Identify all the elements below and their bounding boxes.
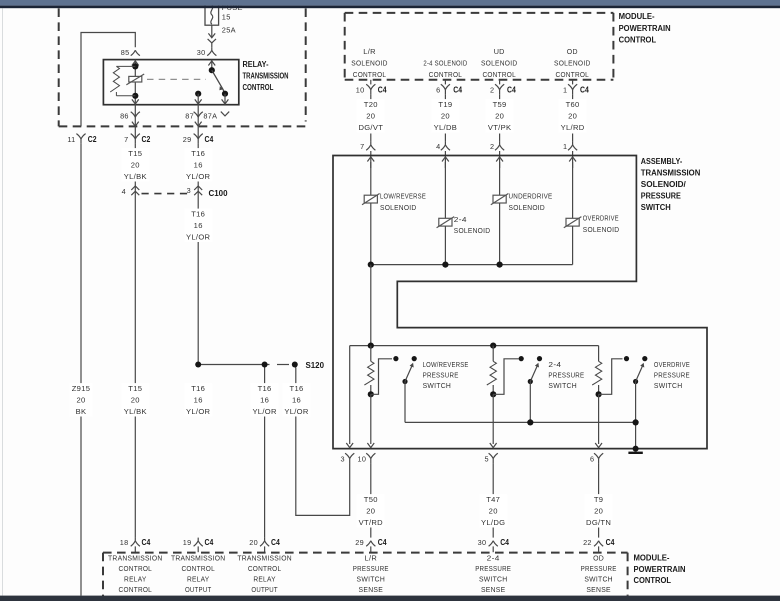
svg-text:CONTROL: CONTROL bbox=[119, 564, 153, 573]
svg-text:SWITCH: SWITCH bbox=[641, 202, 671, 212]
svg-text:20: 20 bbox=[131, 396, 140, 405]
svg-text:19: 19 bbox=[183, 538, 192, 547]
svg-text:Z915: Z915 bbox=[72, 384, 91, 393]
svg-text:6: 6 bbox=[590, 454, 594, 463]
svg-text:SOLENOID: SOLENOID bbox=[509, 203, 546, 212]
svg-text:T9: T9 bbox=[594, 495, 603, 504]
svg-text:20: 20 bbox=[366, 507, 375, 516]
svg-text:20: 20 bbox=[489, 507, 498, 516]
svg-text:PRESSURE: PRESSURE bbox=[654, 370, 690, 379]
svg-text:20: 20 bbox=[441, 112, 450, 121]
svg-text:30: 30 bbox=[197, 48, 206, 57]
svg-text:PRESSURE: PRESSURE bbox=[475, 564, 511, 573]
svg-text:YL/OR: YL/OR bbox=[252, 407, 277, 416]
svg-text:1: 1 bbox=[563, 86, 567, 95]
svg-text:TRANSMISSION: TRANSMISSION bbox=[171, 554, 226, 563]
svg-text:2-4: 2-4 bbox=[487, 554, 500, 563]
svg-text:YL/OR: YL/OR bbox=[186, 407, 211, 416]
svg-text:CONTROL: CONTROL bbox=[119, 585, 153, 594]
svg-text:3: 3 bbox=[187, 186, 191, 195]
svg-text:18: 18 bbox=[120, 538, 129, 547]
svg-text:CONTROL: CONTROL bbox=[556, 70, 590, 79]
svg-text:10: 10 bbox=[357, 454, 366, 463]
svg-text:SWITCH: SWITCH bbox=[423, 381, 452, 390]
svg-text:16: 16 bbox=[292, 396, 301, 405]
svg-text:5: 5 bbox=[485, 454, 489, 463]
svg-text:T15: T15 bbox=[128, 384, 142, 393]
svg-text:SENSE: SENSE bbox=[586, 585, 611, 594]
svg-text:16: 16 bbox=[194, 161, 203, 170]
svg-text:85: 85 bbox=[121, 48, 130, 57]
svg-text:LOW/REVERSE: LOW/REVERSE bbox=[423, 360, 469, 369]
svg-text:C4: C4 bbox=[205, 538, 214, 547]
svg-text:RELAY: RELAY bbox=[124, 575, 147, 584]
svg-text:7: 7 bbox=[124, 135, 128, 144]
svg-text:10: 10 bbox=[356, 86, 365, 95]
svg-text:S120: S120 bbox=[306, 361, 325, 370]
svg-text:L/R: L/R bbox=[363, 47, 376, 56]
svg-text:SWITCH: SWITCH bbox=[479, 575, 508, 584]
svg-text:25A: 25A bbox=[222, 26, 236, 35]
svg-text:RELAY: RELAY bbox=[187, 575, 210, 584]
svg-text:UD: UD bbox=[494, 47, 505, 56]
svg-text:2: 2 bbox=[490, 86, 494, 95]
svg-text:T15: T15 bbox=[128, 149, 142, 158]
svg-text:C100: C100 bbox=[209, 189, 229, 198]
svg-text:CONTROL: CONTROL bbox=[429, 70, 463, 79]
svg-text:2-4: 2-4 bbox=[454, 215, 467, 224]
svg-text:SENSE: SENSE bbox=[359, 585, 384, 594]
svg-text:C4: C4 bbox=[378, 86, 387, 95]
svg-text:TRANSMISSION: TRANSMISSION bbox=[641, 167, 701, 177]
svg-text:CONTROL: CONTROL bbox=[634, 575, 672, 585]
svg-text:RELAY: RELAY bbox=[253, 575, 276, 584]
svg-text:OD: OD bbox=[567, 47, 578, 56]
svg-text:T16: T16 bbox=[290, 384, 304, 393]
svg-text:SOLENOID: SOLENOID bbox=[380, 203, 417, 212]
svg-text:UNDERDRIVE: UNDERDRIVE bbox=[509, 191, 553, 200]
svg-text:11: 11 bbox=[67, 135, 75, 144]
svg-text:PRESSURE: PRESSURE bbox=[641, 190, 681, 200]
svg-text:PRESSURE: PRESSURE bbox=[548, 370, 584, 379]
svg-text:MODULE-: MODULE- bbox=[634, 553, 670, 563]
svg-text:SOLENOID: SOLENOID bbox=[351, 59, 388, 68]
svg-text:C4: C4 bbox=[378, 538, 387, 547]
svg-text:YL/BK: YL/BK bbox=[124, 407, 147, 416]
svg-text:C4: C4 bbox=[500, 538, 509, 547]
svg-text:C4: C4 bbox=[507, 86, 516, 95]
svg-text:PRESSURE: PRESSURE bbox=[353, 564, 389, 573]
svg-text:C4: C4 bbox=[580, 86, 589, 95]
svg-text:1: 1 bbox=[563, 142, 567, 151]
svg-text:OVERDRIVE: OVERDRIVE bbox=[654, 360, 690, 369]
svg-text:YL/OR: YL/OR bbox=[186, 233, 211, 242]
svg-text:SWITCH: SWITCH bbox=[654, 381, 683, 390]
svg-text:T16: T16 bbox=[191, 149, 205, 158]
svg-text:20: 20 bbox=[594, 507, 603, 516]
svg-text:VT/RD: VT/RD bbox=[359, 518, 383, 527]
svg-text:7: 7 bbox=[360, 142, 364, 151]
svg-text:16: 16 bbox=[260, 396, 269, 405]
svg-text:MODULE-: MODULE- bbox=[619, 11, 655, 21]
svg-text:T16: T16 bbox=[258, 384, 272, 393]
svg-text:29: 29 bbox=[183, 135, 192, 144]
svg-text:SOLENOID: SOLENOID bbox=[554, 59, 591, 68]
svg-text:SOLENOID: SOLENOID bbox=[583, 225, 620, 234]
svg-text:16: 16 bbox=[194, 396, 203, 405]
svg-text:T16: T16 bbox=[191, 210, 205, 219]
svg-text:86: 86 bbox=[120, 112, 129, 121]
svg-text:20: 20 bbox=[366, 112, 375, 121]
svg-text:DG/TN: DG/TN bbox=[586, 518, 611, 527]
svg-text:VT/PK: VT/PK bbox=[488, 123, 511, 132]
svg-text:TRANSMISSION: TRANSMISSION bbox=[237, 554, 292, 563]
svg-text:30: 30 bbox=[478, 538, 487, 547]
svg-text:C4: C4 bbox=[205, 135, 214, 144]
svg-text:20: 20 bbox=[131, 161, 140, 170]
svg-text:T47: T47 bbox=[486, 495, 500, 504]
svg-text:YL/OR: YL/OR bbox=[284, 407, 309, 416]
svg-text:CONTROL: CONTROL bbox=[181, 564, 215, 573]
svg-text:20: 20 bbox=[568, 112, 577, 121]
svg-text:YL/BK: YL/BK bbox=[124, 172, 147, 181]
svg-text:POWERTRAIN: POWERTRAIN bbox=[634, 564, 686, 574]
svg-text:YL/OR: YL/OR bbox=[186, 172, 211, 181]
svg-text:2-4: 2-4 bbox=[548, 360, 561, 369]
svg-text:TRANSMISSION: TRANSMISSION bbox=[243, 71, 289, 81]
svg-text:CONTROL: CONTROL bbox=[248, 564, 282, 573]
svg-text:SWITCH: SWITCH bbox=[548, 381, 577, 390]
svg-text:SWITCH: SWITCH bbox=[584, 575, 613, 584]
svg-text:SWITCH: SWITCH bbox=[357, 575, 386, 584]
svg-text:29: 29 bbox=[355, 538, 364, 547]
svg-text:T59: T59 bbox=[493, 100, 507, 109]
svg-text:C4: C4 bbox=[606, 538, 615, 547]
svg-text:CONTROL: CONTROL bbox=[243, 82, 274, 92]
svg-text:C4: C4 bbox=[453, 86, 462, 95]
svg-text:DG/VT: DG/VT bbox=[358, 123, 383, 132]
svg-text:TRANSMISSION: TRANSMISSION bbox=[108, 554, 163, 563]
svg-text:15: 15 bbox=[222, 13, 231, 22]
svg-text:6: 6 bbox=[436, 86, 440, 95]
svg-text:87A: 87A bbox=[203, 112, 217, 121]
svg-text:C4: C4 bbox=[142, 538, 151, 547]
svg-text:SENSE: SENSE bbox=[481, 585, 506, 594]
svg-text:2: 2 bbox=[490, 142, 494, 151]
svg-text:2-4 SOLENOID: 2-4 SOLENOID bbox=[423, 59, 467, 68]
svg-text:20: 20 bbox=[76, 396, 85, 405]
svg-text:YL/RD: YL/RD bbox=[561, 123, 585, 132]
svg-text:C2: C2 bbox=[88, 135, 97, 144]
svg-text:T60: T60 bbox=[566, 100, 580, 109]
svg-text:LOW/REVERSE: LOW/REVERSE bbox=[380, 191, 426, 200]
svg-text:POWERTRAIN: POWERTRAIN bbox=[619, 23, 671, 33]
svg-text:16: 16 bbox=[194, 221, 203, 230]
svg-text:4: 4 bbox=[436, 142, 440, 151]
svg-text:BK: BK bbox=[76, 407, 87, 416]
svg-text:L/R: L/R bbox=[365, 554, 378, 563]
svg-text:87: 87 bbox=[185, 112, 194, 121]
svg-text:SOLENOID: SOLENOID bbox=[454, 226, 491, 235]
svg-text:OVERDRIVE: OVERDRIVE bbox=[583, 214, 619, 223]
svg-text:RELAY-: RELAY- bbox=[243, 59, 269, 69]
svg-text:OD: OD bbox=[593, 554, 604, 563]
svg-text:CONTROL: CONTROL bbox=[482, 70, 516, 79]
svg-text:20: 20 bbox=[495, 112, 504, 121]
svg-text:T16: T16 bbox=[191, 384, 205, 393]
svg-text:YL/DG: YL/DG bbox=[481, 518, 505, 527]
svg-text:22: 22 bbox=[583, 538, 592, 547]
svg-text:SOLENOID/: SOLENOID/ bbox=[641, 179, 687, 189]
svg-text:T19: T19 bbox=[438, 100, 452, 109]
svg-text:OUTPUT: OUTPUT bbox=[251, 585, 278, 594]
svg-text:OUTPUT: OUTPUT bbox=[185, 585, 212, 594]
svg-text:C2: C2 bbox=[142, 135, 151, 144]
svg-text:SOLENOID: SOLENOID bbox=[481, 59, 518, 68]
svg-text:C4: C4 bbox=[271, 538, 280, 547]
svg-text:CONTROL: CONTROL bbox=[353, 70, 387, 79]
svg-text:3: 3 bbox=[341, 454, 345, 463]
svg-text:YL/DB: YL/DB bbox=[434, 123, 457, 132]
svg-text:PRESSURE: PRESSURE bbox=[423, 370, 459, 379]
svg-text:PRESSURE: PRESSURE bbox=[581, 564, 617, 573]
svg-text:20: 20 bbox=[249, 538, 258, 547]
svg-text:T50: T50 bbox=[364, 495, 378, 504]
svg-text:T20: T20 bbox=[364, 100, 378, 109]
svg-text:ASSEMBLY-: ASSEMBLY- bbox=[641, 156, 683, 166]
svg-text:4: 4 bbox=[122, 187, 126, 196]
svg-text:CONTROL: CONTROL bbox=[619, 34, 657, 44]
